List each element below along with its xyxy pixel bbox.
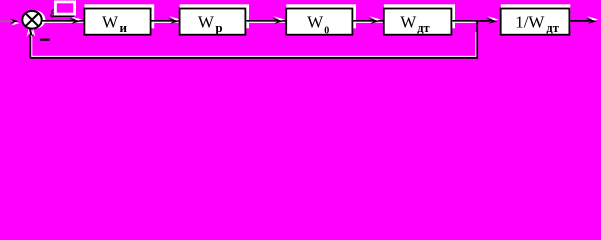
arrowhead into 1/W_дт — [487, 16, 498, 22]
black line under reference square — [53, 15, 75, 17]
block W_дт white shadow — [384, 4, 455, 28]
arrowhead into W_0 — [273, 16, 284, 22]
loop inner white highlight: right (lower part only) — [475, 32, 477, 57]
minus sign — [40, 39, 50, 41]
summing junction circle U1 — [22, 11, 41, 29]
block W_дт — [384, 9, 452, 35]
svg-text:W: W — [102, 12, 119, 31]
svg-text:0: 0 — [324, 25, 329, 36]
wire: W_дт to 1/W_дт (passes feedback tap) — [452, 20, 495, 22]
svg-text:W: W — [400, 12, 417, 31]
feedback loop rectangle (black outer border) — [30, 21, 477, 58]
block 1/W_дт white shadow (top band) — [501, 4, 571, 28]
block W_0 white shadow — [286, 4, 356, 28]
block W_р white shadow — [180, 4, 249, 28]
feedback up-arrow into summing junction — [31, 29, 35, 38]
input wire (gray) — [0, 20, 11, 22]
wire: W_и to W_р — [152, 20, 178, 22]
arrowhead into W_р — [169, 16, 180, 22]
summing junction white shadow — [26, 11, 46, 29]
svg-text:W: W — [198, 12, 215, 31]
block W_0 — [286, 9, 352, 35]
svg-text:р: р — [215, 20, 222, 35]
X inside summing junction — [25, 13, 39, 27]
wire: circle to W_и — [42, 20, 79, 22]
block 1/W_дт — [501, 9, 570, 35]
loop inner white highlight: left — [31, 22, 33, 57]
input arrowhead — [10, 20, 19, 25]
svg-text:дт: дт — [417, 21, 429, 35]
svg-text:и: и — [120, 20, 128, 35]
wire: W_р to W_0 — [246, 20, 281, 22]
gray line above bottom of loop — [33, 54, 474, 56]
block W_и — [84, 9, 150, 35]
output wire of 1/W_дт — [570, 20, 590, 22]
block W_и white shadow — [85, 4, 155, 28]
svg-text:1/W: 1/W — [515, 12, 545, 31]
svg-text:дт: дт — [546, 21, 558, 35]
loop inner white highlight: top — [31, 21, 476, 23]
arrowhead into W_и — [70, 16, 81, 22]
block W_р — [180, 9, 246, 35]
white reference square — [55, 2, 74, 14]
wire: W_0 to W_дт — [353, 20, 377, 22]
output arrowhead — [587, 16, 598, 22]
loop inner white highlight: bottom — [31, 55, 476, 57]
arrowhead into W_дт — [369, 16, 380, 22]
svg-text:W: W — [307, 12, 324, 31]
